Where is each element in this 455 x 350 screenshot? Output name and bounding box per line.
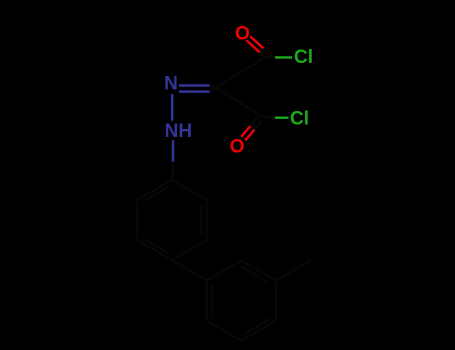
svg-text:Cl: Cl (290, 109, 309, 130)
svg-text:Cl: Cl (294, 47, 313, 68)
svg-text:NH: NH (165, 121, 192, 142)
svg-text:N: N (164, 74, 178, 95)
svg-text:O: O (230, 136, 245, 157)
svg-text:O: O (235, 23, 250, 44)
